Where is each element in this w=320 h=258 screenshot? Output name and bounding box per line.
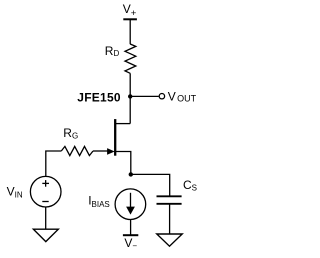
svg-text:JFE150: JFE150	[77, 90, 121, 104]
wire source node to CS	[131, 174, 170, 196]
ground (CS)	[157, 234, 182, 246]
node drain junction	[128, 94, 132, 98]
supply terminal V+	[123, 2, 137, 19]
supply terminal V-	[123, 235, 138, 250]
current source IBIAS	[88, 189, 146, 220]
resistor RD	[105, 44, 136, 73]
wire RD to drain node	[129, 73, 131, 123]
wire VIN to ground	[45, 208, 47, 230]
resistor RG	[61, 126, 93, 156]
source VIN	[7, 176, 61, 207]
wire VIN to RG	[46, 151, 62, 176]
wire V+ to RD	[129, 19, 131, 44]
wire node to VOUT terminal	[130, 95, 159, 97]
wire RG to gate	[93, 150, 108, 152]
wire CS to ground	[169, 204, 171, 234]
node source junction	[129, 172, 133, 176]
capacitor CS	[157, 178, 198, 204]
transistor JFE150 (JFET)	[77, 90, 131, 174]
output terminal VOUT	[159, 89, 196, 103]
ground (VIN)	[33, 229, 58, 241]
wire IBIAS to V-	[130, 220, 132, 235]
